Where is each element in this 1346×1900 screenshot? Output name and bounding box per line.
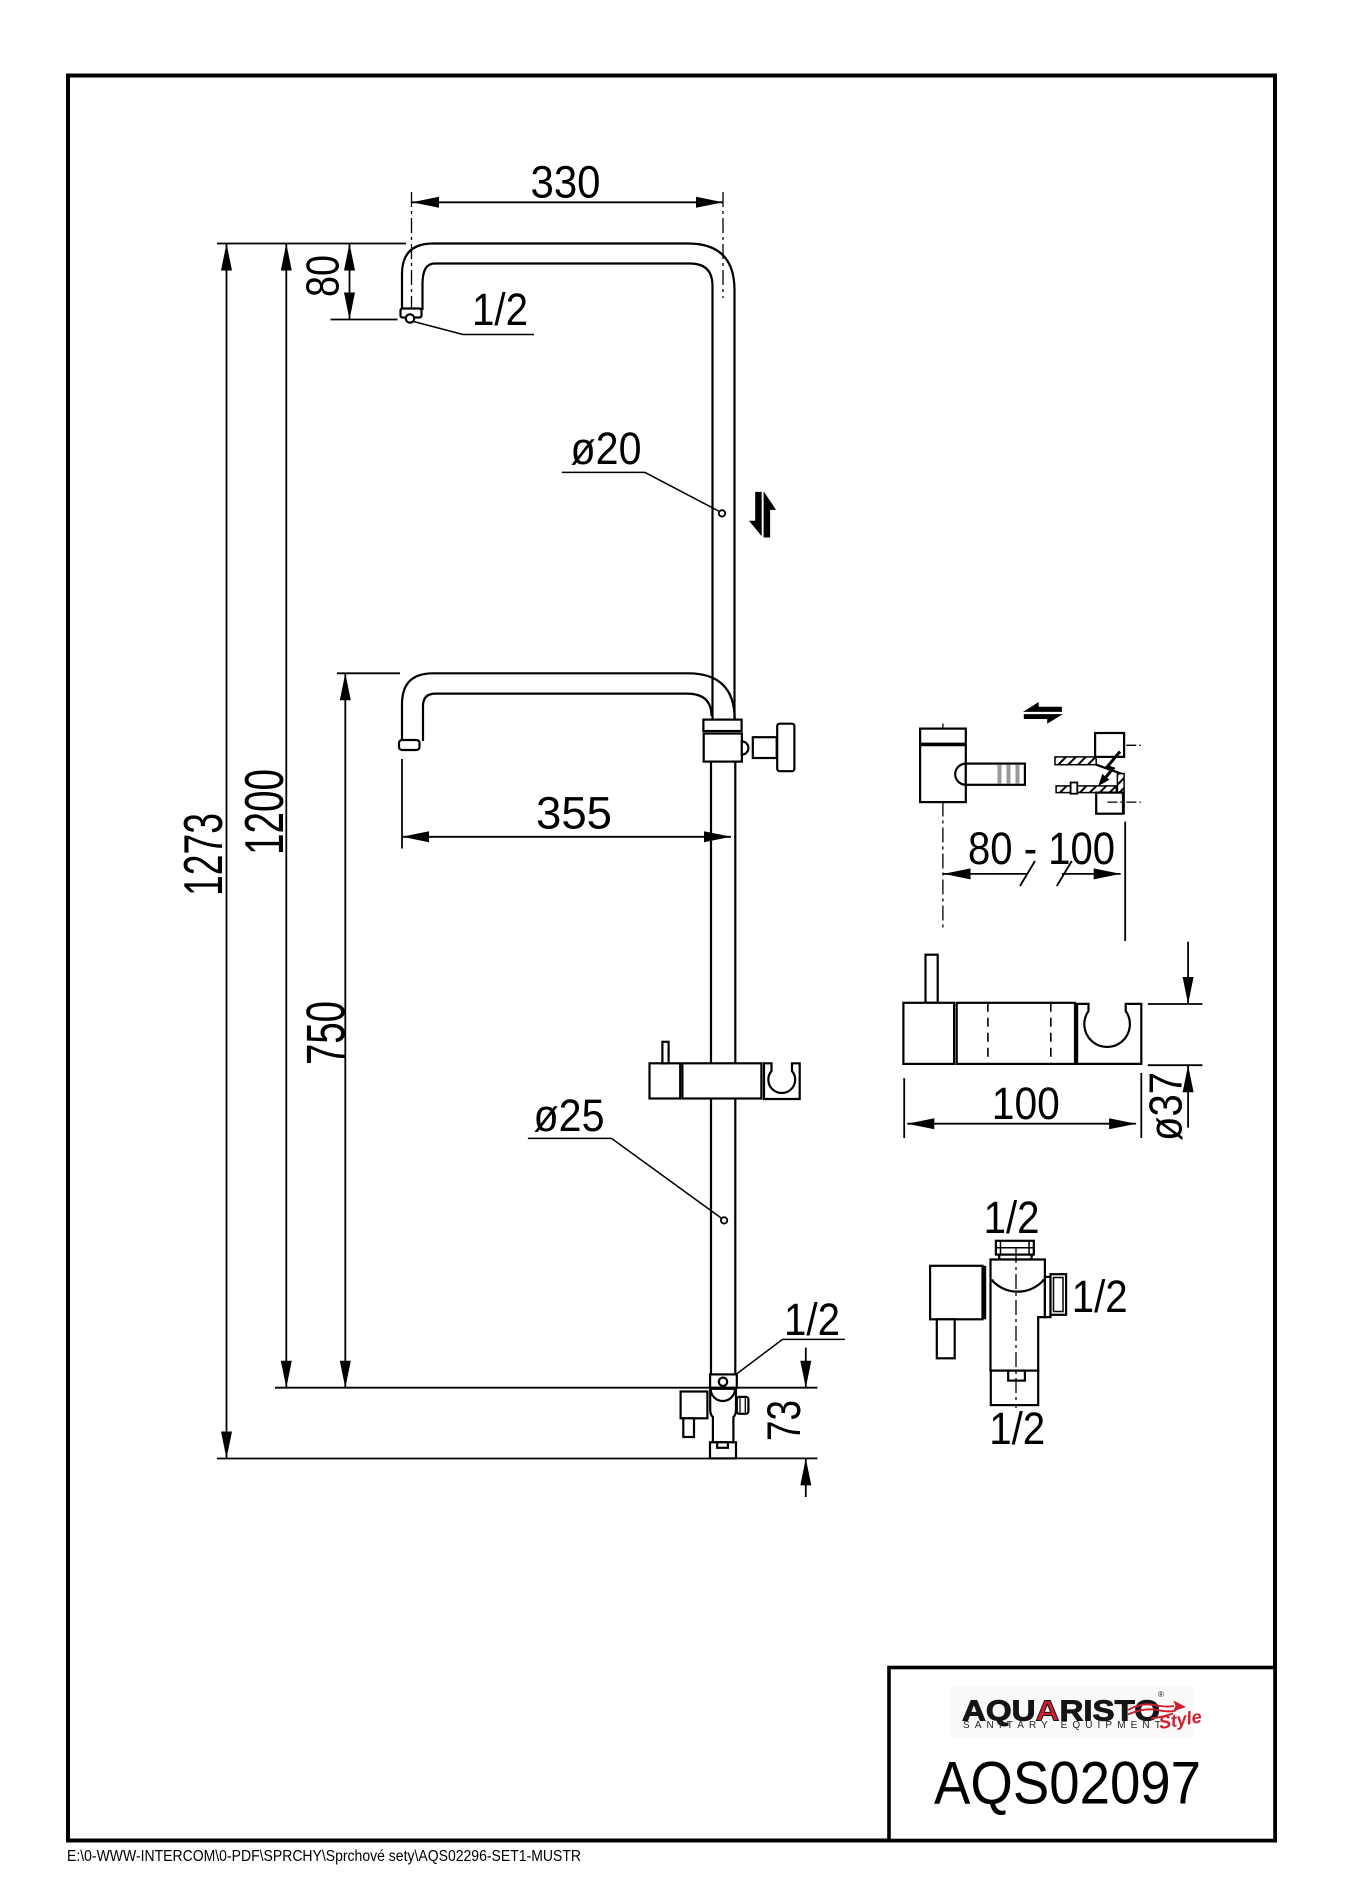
svg-text:73: 73 (757, 1400, 810, 1441)
dim 100 (907, 1118, 1136, 1129)
slider detail middle block (957, 1003, 1075, 1064)
sliding double-arrow symbol (horizontal) (1023, 702, 1063, 724)
svg-text:1273: 1273 (172, 813, 234, 896)
diverter main body (991, 1260, 1045, 1371)
extension line ø37 top (1148, 1003, 1203, 1005)
svg-text:ø37: ø37 (1140, 1072, 1192, 1141)
dim 80-100 line right part (1057, 861, 1121, 886)
extension line 73 bottom (737, 1457, 817, 1459)
diverter left block (930, 1266, 984, 1320)
svg-text:ø20: ø20 (571, 423, 642, 474)
dim 330 horizontal line (412, 197, 723, 208)
bottom outlet cap (710, 1442, 736, 1458)
TITLE BLOCK (889, 1668, 1275, 1841)
extension line y=1386.5 (1200/750 bottom) (275, 1387, 710, 1389)
svg-text:ø25: ø25 (534, 1090, 605, 1141)
right outlet thread 1/2 (1051, 1274, 1067, 1315)
wall anchor top hatched band (1055, 757, 1096, 765)
dim 73 (800, 1348, 811, 1497)
extension line 750 top (337, 672, 400, 674)
svg-text:AQS02097: AQS02097 (934, 1750, 1201, 1817)
svg-text:1/2: 1/2 (784, 1294, 840, 1345)
right outlet neck (1045, 1277, 1051, 1317)
svg-text:1/2: 1/2 (1072, 1271, 1128, 1322)
bracket flange bold band (920, 743, 966, 747)
bottom diverter knob (737, 1397, 749, 1414)
dim 80-100 extension right (1124, 822, 1126, 941)
lower shower arm (tube) (402, 673, 735, 741)
top neck (999, 1255, 1031, 1260)
svg-text:750: 750 (295, 1001, 357, 1065)
svg-text:®: ® (1158, 1690, 1164, 1699)
svg-text:1/2: 1/2 (472, 284, 528, 335)
diverter left tab (937, 1319, 955, 1358)
anchor centerline bottom (1107, 801, 1140, 803)
bottom diverter left block (681, 1392, 708, 1419)
bottom diverter body (710, 1389, 736, 1443)
extension line 355 left (401, 759, 403, 849)
slider bracket left block (650, 1063, 681, 1098)
svg-text:1/2: 1/2 (989, 1403, 1045, 1454)
extension line 100 right (1140, 1073, 1142, 1138)
slider bracket middle block (682, 1063, 761, 1098)
slider bracket holder with C-cutout (764, 1063, 800, 1099)
dim 355 horizontal line (402, 831, 731, 842)
extension line top (y=243.5) (217, 243, 406, 245)
diverter bottom cap (991, 1371, 1038, 1406)
extension line 80 bottom (331, 319, 398, 321)
wall anchor right hatched strip (1117, 774, 1124, 814)
slider detail stem (926, 955, 938, 1003)
slider detail holder with C-cutout (1077, 1004, 1141, 1064)
dim 750 vertical line (340, 673, 351, 1387)
bracket pin fillet arc (955, 764, 966, 785)
centerline riser top (722, 192, 724, 298)
wall anchor chamfer line (1096, 765, 1124, 775)
slide clamp ring (703, 720, 741, 731)
dim 1273 vertical line (221, 244, 232, 1459)
bracket flange centerline (942, 724, 944, 931)
break arrow (lightning) (1098, 752, 1120, 787)
extension line 100 left (903, 1078, 905, 1138)
riser pipe (711, 286, 735, 1374)
wall anchor bottom hatched band (1056, 786, 1116, 793)
svg-text:SANITARY EQUIPMENT: SANITARY EQUIPMENT (963, 1720, 1166, 1731)
svg-text:100: 100 (992, 1078, 1060, 1129)
svg-text:80 - 100: 80 - 100 (968, 823, 1115, 874)
wall anchor bump (1071, 783, 1078, 794)
clamp nub (semicircle) (742, 741, 749, 754)
bottom diverter left tab (683, 1418, 694, 1437)
upper arm end fitting 1/2 (401, 309, 422, 323)
slide clamp body (704, 734, 742, 762)
clamp screw stem (753, 737, 777, 758)
diverter dome arc (991, 1280, 1045, 1291)
svg-text:330: 330 (531, 157, 601, 208)
slider bracket stem (662, 1042, 668, 1064)
wall anchor bottom block (1096, 793, 1123, 814)
dim 80 vertical line (344, 244, 355, 320)
MAIN-VIEW (172, 157, 845, 1498)
bottom swivel collar 1/2 (710, 1374, 737, 1387)
logo red swoosh arrow (1128, 1701, 1186, 1719)
dim 1200 vertical line (281, 244, 292, 1388)
leader ø25 (528, 1138, 727, 1223)
leader 1/2 (bottom collar) (736, 1339, 845, 1374)
anchor centerline top (1126, 744, 1141, 746)
leader 1/2 (upper arm) (414, 322, 464, 335)
wall anchor top block (1095, 733, 1124, 757)
dim ø37 (1183, 942, 1194, 1128)
telescopic double-arrow symbol (vertical) (749, 491, 776, 537)
DETAIL: slider bracket (903, 942, 1202, 1141)
lower arm end cap (399, 740, 420, 750)
title block box (889, 1668, 1275, 1841)
centerline upper arm left (411, 192, 413, 316)
extension line 73 top (737, 1387, 817, 1389)
svg-text:80: 80 (297, 255, 349, 297)
slider detail dashed line 2 (1050, 1003, 1052, 1064)
svg-text:355: 355 (536, 788, 612, 839)
bottom diverter dome (711, 1389, 735, 1401)
slider detail left block (903, 1003, 954, 1064)
DETAIL: wall bracket (920, 702, 1141, 941)
extension line y=1458.5 (1273 bottom) (217, 1458, 710, 1460)
clamp knob (777, 724, 794, 772)
extension line ø37 bottom (1148, 1064, 1203, 1066)
top thread nipple (996, 1241, 1034, 1255)
leader ø20 (562, 472, 725, 516)
diverter centerline (1015, 1248, 1017, 1408)
upper shower arm (tube) (402, 244, 735, 311)
bracket flange body (920, 729, 966, 803)
svg-text:1200: 1200 (233, 769, 295, 855)
svg-text:1/2: 1/2 (984, 1192, 1040, 1243)
bracket pin (966, 764, 1025, 785)
logo background (951, 1686, 1193, 1738)
dim 80-100 line left part (944, 861, 1036, 886)
svg-text:E:\0-WWW-INTERCOM\0-PDF\SPRCHY: E:\0-WWW-INTERCOM\0-PDF\SPRCHY\Sprchové … (67, 1848, 581, 1865)
DETAIL: diverter valve (930, 1192, 1128, 1454)
bracket pin thread ribs (1000, 765, 1018, 784)
slider detail dashed line 1 (987, 1003, 989, 1064)
